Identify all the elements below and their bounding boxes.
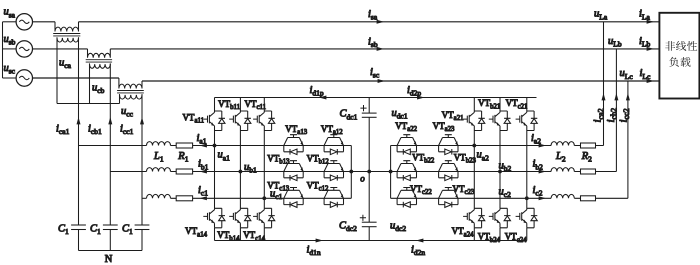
node u_a1 phase leg junction <box>213 144 217 148</box>
transistor VT_b24 <box>489 208 511 228</box>
wire leg b1 to node <box>239 131 241 172</box>
transistor VT_a24 <box>463 208 485 228</box>
load box nonlinear load <box>659 13 699 99</box>
inductor L1 phase a <box>147 142 171 146</box>
wire leg c1 to node <box>263 131 265 199</box>
arrow i_La <box>647 20 654 24</box>
arrow i_cc2 <box>626 93 630 100</box>
arrow i_Lc <box>647 79 654 83</box>
arrow i_b1 <box>200 170 207 174</box>
wire leg b1 to rail <box>239 228 241 241</box>
wire row b right converter <box>391 171 551 173</box>
wire branch a1 to clamp bus <box>171 145 352 147</box>
polarity + C_dc1 <box>360 105 366 111</box>
wire DC link upper <box>368 98 370 114</box>
wire right clamp bus <box>390 146 392 199</box>
wire phase-a grid to load <box>79 21 660 23</box>
resistor R1 phase a <box>176 143 192 148</box>
transistor VT_b22 <box>397 161 416 178</box>
transistor VT_b13 <box>284 161 303 178</box>
arrow i_d2n <box>416 239 423 243</box>
wire row a right converter <box>391 145 551 147</box>
transistor VT_a22 <box>397 135 416 152</box>
arrow i_Lb <box>647 47 654 51</box>
wire leg b1 top <box>239 98 241 112</box>
wire leg a2 top <box>473 98 475 112</box>
arrow i_sa <box>377 20 384 24</box>
transistor VT_b23 <box>439 161 458 178</box>
source u_sa <box>3 14 33 30</box>
wire branch b1 from injection vertical <box>110 171 146 173</box>
wire leg a1 to node <box>214 131 216 146</box>
transistor VT_a23 <box>439 135 458 152</box>
wire branch c1 to clamp bus <box>171 197 352 199</box>
resistor R2 phase b <box>581 169 596 174</box>
wire phase-a grid from source <box>33 21 56 23</box>
transistor VT_a13 <box>284 135 303 152</box>
inductor L2 phase b <box>551 168 574 172</box>
transistor VT_c14 <box>253 208 275 228</box>
node u_b2 junction <box>498 170 502 174</box>
wire phase-c grid to load <box>142 80 659 82</box>
label nonlinear load text 非线性 <box>665 41 697 51</box>
wire leg c1 bottom <box>263 198 265 208</box>
inductor L1 phase b <box>147 168 171 172</box>
wire leg b2 to node <box>499 131 501 172</box>
transistor VT_b14 <box>229 208 251 228</box>
wire phase-c grid from source <box>33 77 119 79</box>
wire leg a2 to node <box>473 131 475 146</box>
wire leg b2 to rail <box>499 228 501 241</box>
transformer T_c (u_cc) <box>119 78 142 89</box>
wire T_a secondary left terminal <box>56 37 58 103</box>
transistor VT_c23 <box>439 188 458 205</box>
transistor VT_b21 <box>489 111 511 131</box>
wire midpoint o link <box>351 171 390 173</box>
wire N bus <box>79 250 143 252</box>
inductor L1 phase c <box>147 194 171 198</box>
wire leg c1 to rail <box>263 228 265 241</box>
transistor VT_c13 <box>284 188 303 205</box>
wire branch c2 to riser <box>574 197 628 199</box>
polarity + C_dc2 <box>360 215 366 221</box>
wire leg c2 to node <box>526 131 528 199</box>
svg-text:N: N <box>105 254 113 265</box>
label nonlinear load text 负载 <box>669 57 690 67</box>
wire injection phase-c vertical lower <box>141 230 143 251</box>
arrow i_c2 <box>539 196 546 200</box>
transistor VT_a11 <box>203 111 225 131</box>
node u_c1 phase leg junction <box>262 196 266 200</box>
transistor VT_c24 <box>516 208 538 228</box>
arrow i_sc <box>378 79 385 83</box>
wire injection phase-b vertical <box>109 63 111 225</box>
arrow i_cb2 <box>614 93 618 100</box>
wire DC- rail <box>215 240 527 242</box>
inductor L2 phase c <box>551 194 574 198</box>
transistor VT_a12 <box>324 135 343 152</box>
wire DC link middle <box>368 117 370 222</box>
transistor VT_c12 <box>324 188 343 205</box>
svg-text:o: o <box>360 174 365 184</box>
wire riser c2 to grid <box>627 81 629 198</box>
source u_sc <box>3 70 33 86</box>
wire leg c1 top <box>263 98 265 112</box>
wire branch b2 to riser <box>574 171 616 173</box>
arrow i_sb <box>377 47 384 51</box>
inductor L2 phase a <box>551 142 574 146</box>
wire DC+ rail <box>215 97 537 99</box>
transistor VT_c22 <box>397 188 416 205</box>
arrow i_cc1 <box>140 117 144 124</box>
arrow i_cb1 <box>108 117 112 124</box>
capacitor C_dc1 <box>362 112 377 114</box>
node o midpoint <box>367 170 371 174</box>
wire branch a2 to riser <box>574 145 603 147</box>
arrow i_d2p <box>417 96 424 100</box>
wire T_b secondary left terminal <box>89 63 91 103</box>
wire row c right converter <box>391 197 551 199</box>
wire leg a1 to rail <box>214 228 216 241</box>
wire injection phase-c vertical <box>141 94 143 225</box>
wire branch b1 to clamp bus <box>171 171 352 173</box>
resistor R2 phase a <box>581 143 596 148</box>
transistor VT_b11 <box>229 111 251 131</box>
wire branch c1 from injection vertical <box>142 197 147 199</box>
wire secondary star bus <box>57 103 120 105</box>
transistor VT_a14 <box>203 208 225 228</box>
arrow i_d1n <box>316 239 323 243</box>
source u_sb <box>3 41 33 57</box>
wire leg c2 bottom <box>526 198 528 208</box>
wire leg b2 top <box>499 98 501 112</box>
wire left clamp bus <box>350 146 352 199</box>
arrow i_d1p <box>319 96 326 100</box>
wire leg c2 top <box>526 98 528 112</box>
capacitor C1 phase a <box>71 224 86 226</box>
wire leg b1 bottom <box>239 172 241 209</box>
wire leg a1 top <box>214 98 216 112</box>
transformer T_a (u_ca) <box>55 22 79 32</box>
wire injection phase-a vertical <box>78 37 80 225</box>
node u_c2 junction <box>525 196 529 200</box>
wire injection phase-a vertical lower <box>78 230 80 251</box>
wire riser a2 to grid <box>603 22 605 146</box>
resistor R2 phase c <box>581 196 596 201</box>
transistor VT_a21 <box>463 111 485 131</box>
node u_b1 phase leg junction <box>239 170 243 174</box>
junction right clamp bus / midpoint <box>389 170 393 174</box>
junction left clamp bus / midpoint <box>349 170 353 174</box>
resistor R1 phase c <box>176 196 192 201</box>
node u_a2 junction <box>472 144 476 148</box>
wire phase-b grid to load <box>110 48 659 50</box>
wire leg a1 bottom <box>214 146 216 209</box>
arrow i_a2 <box>539 144 546 148</box>
capacitor C1 phase c <box>135 224 150 226</box>
transistor VT_c21 <box>516 111 538 131</box>
wire phase-b grid from source <box>33 48 88 50</box>
capacitor C_dc2 <box>362 221 377 223</box>
transistor VT_c11 <box>253 111 275 131</box>
resistor R1 phase b <box>176 169 192 174</box>
arrow i_ca1 <box>77 117 81 124</box>
wire riser b2 to grid <box>615 49 617 172</box>
node source common bus <box>2 22 4 78</box>
wire leg c2 to rail <box>526 228 528 241</box>
arrow i_c1 <box>200 196 207 200</box>
wire injection phase-b vertical lower <box>109 230 111 251</box>
wire branch a1 from injection vertical <box>79 145 147 147</box>
wire leg a2 to rail <box>473 228 475 241</box>
arrow i_a1 <box>200 144 207 148</box>
arrow i_b2 <box>539 170 546 174</box>
capacitor C1 phase b <box>103 224 118 226</box>
wire leg b2 bottom <box>499 172 501 209</box>
transformer T_b (u_cb) <box>88 49 111 58</box>
arrow i_ca2 <box>602 93 606 100</box>
wire leg a2 bottom <box>473 146 475 209</box>
wire DC link lower <box>368 227 370 241</box>
wire T_c secondary left terminal <box>119 94 121 103</box>
transistor VT_b12 <box>324 161 343 178</box>
